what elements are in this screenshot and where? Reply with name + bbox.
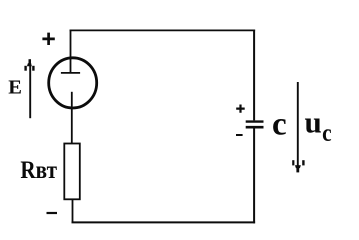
svg-text:E: E	[8, 77, 22, 99]
svg-text:c: c	[322, 118, 332, 147]
svg-text:c: c	[272, 107, 287, 143]
svg-text:Rвт: Rвт	[20, 157, 57, 184]
svg-text:u: u	[305, 105, 322, 140]
